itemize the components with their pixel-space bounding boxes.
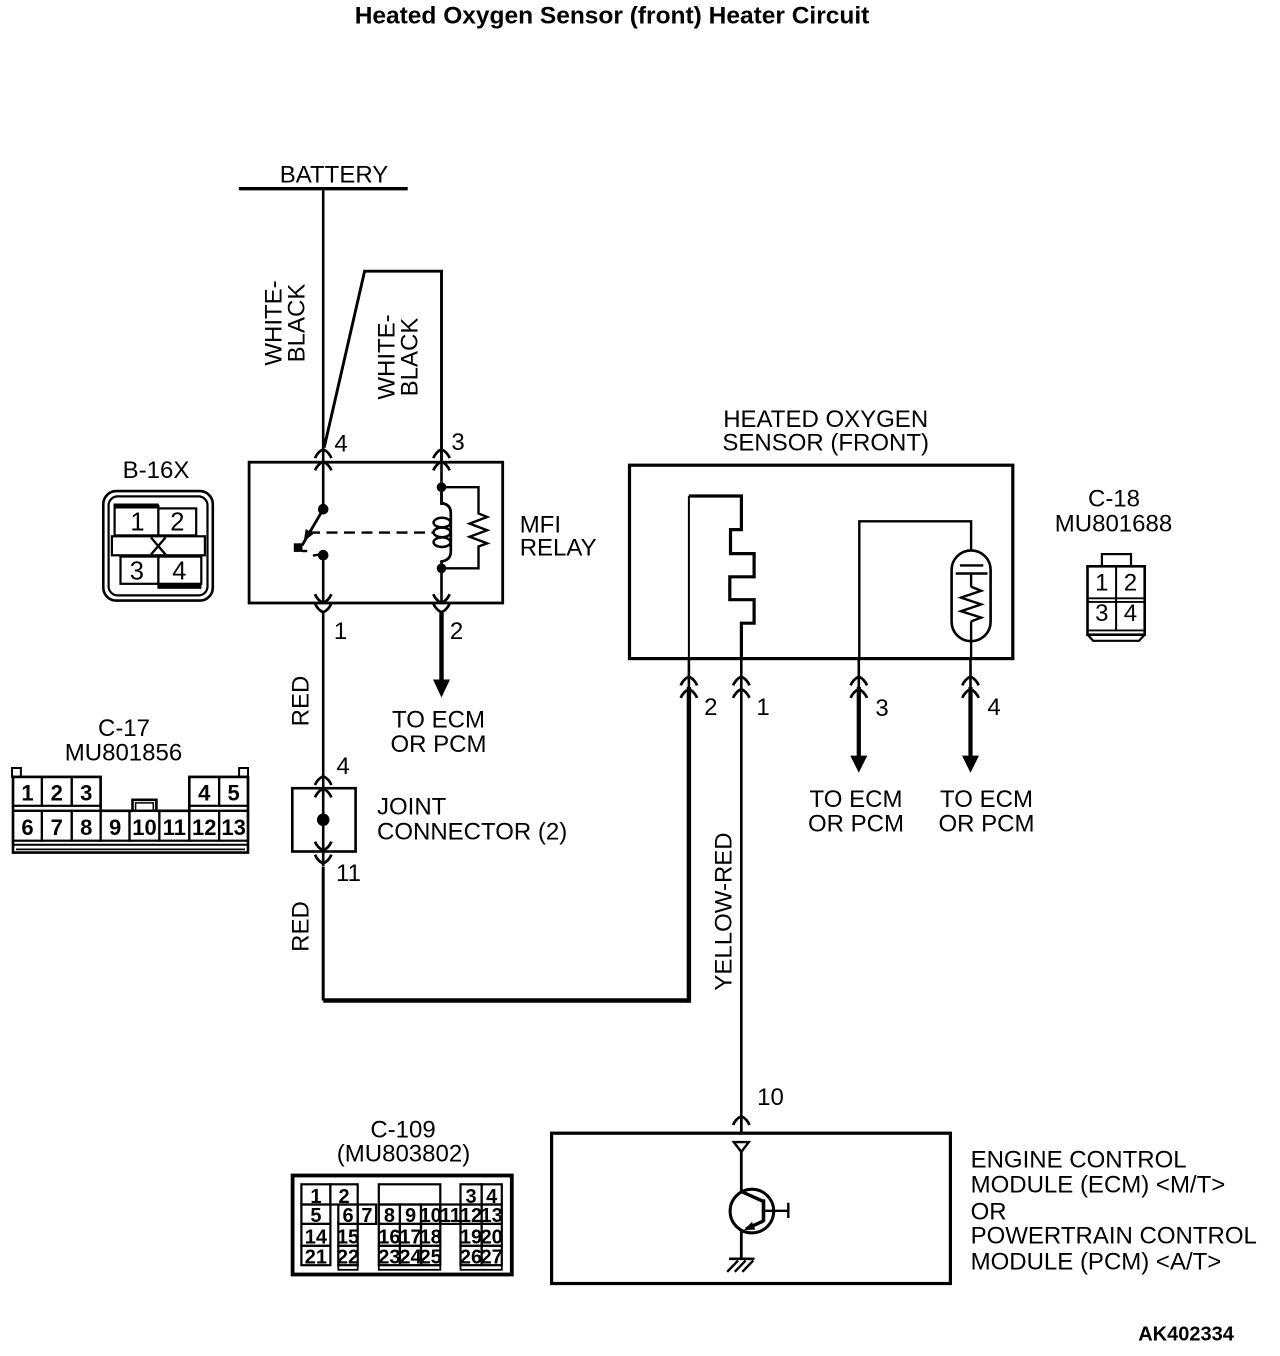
- svg-text:6: 6: [21, 815, 33, 840]
- label TO ECM OR PCM (relay pin 2): [391, 707, 487, 759]
- svg-text:B-16X: B-16X: [123, 457, 190, 484]
- sensor pin 1 label: [756, 694, 769, 721]
- svg-text:2: 2: [170, 509, 184, 537]
- relay switch upper contact: [318, 504, 329, 515]
- label WHITE-BLACK left: [261, 280, 311, 365]
- pin 4 connector chevrons: [315, 449, 331, 470]
- svg-text:11: 11: [163, 815, 186, 840]
- ECM box: [552, 1133, 951, 1283]
- svg-text:3: 3: [451, 429, 464, 456]
- relay wire coil to pin 2: [440, 568, 443, 602]
- wire into ECM: [740, 1119, 743, 1133]
- svg-text:1: 1: [334, 618, 347, 645]
- svg-text:12: 12: [460, 1205, 482, 1227]
- pin 3 label: [451, 429, 464, 456]
- joint connector box: [292, 788, 355, 851]
- svg-text:BLACK: BLACK: [397, 318, 424, 397]
- svg-text:1: 1: [21, 781, 33, 806]
- wire RED joint connector down: [322, 867, 325, 1001]
- wire RED relay pin 1 to joint connector: [322, 613, 325, 789]
- svg-text:CONNECTOR (2): CONNECTOR (2): [377, 818, 567, 845]
- svg-text:MODULE (PCM) <A/T>: MODULE (PCM) <A/T>: [971, 1248, 1222, 1275]
- svg-text:2: 2: [450, 618, 463, 645]
- svg-text:11: 11: [336, 860, 361, 887]
- connector B-16X: [103, 491, 213, 600]
- relay coil parallel resistor: [442, 487, 488, 568]
- svg-text:6: 6: [342, 1205, 353, 1227]
- svg-text:OR PCM: OR PCM: [808, 810, 904, 837]
- sensor pin 3 stub and chevrons: [851, 659, 867, 698]
- svg-text:C-17: C-17: [98, 715, 150, 742]
- svg-text:OR PCM: OR PCM: [391, 731, 487, 758]
- svg-text:1: 1: [130, 509, 144, 537]
- svg-text:10: 10: [420, 1205, 442, 1227]
- MFI relay box: [249, 462, 503, 603]
- svg-text:8: 8: [384, 1205, 395, 1227]
- connector C-18 label: [1055, 485, 1172, 537]
- relay switch lower contact: [313, 550, 329, 561]
- svg-text:4: 4: [987, 694, 1000, 721]
- svg-text:11: 11: [440, 1205, 461, 1227]
- svg-text:7: 7: [361, 1205, 372, 1227]
- svg-text:9: 9: [405, 1205, 416, 1227]
- svg-text:3: 3: [130, 558, 144, 586]
- wire battery to relay pin 4 (WHITE-BLACK): [322, 190, 325, 461]
- relay pin 2 label: [450, 618, 463, 645]
- svg-text:C-18: C-18: [1088, 485, 1140, 512]
- svg-text:OR: OR: [971, 1198, 1007, 1225]
- label JOINT CONNECTOR (2): [377, 793, 567, 845]
- title: [355, 3, 870, 30]
- svg-text:10: 10: [757, 1084, 784, 1111]
- relay switch wire from pin 4: [322, 462, 325, 509]
- sensor pin 4 stub and chevrons: [962, 659, 978, 698]
- svg-text:16: 16: [378, 1227, 400, 1249]
- label WHITE-BLACK right: [374, 314, 424, 399]
- sensor element wire: [859, 521, 971, 658]
- svg-text:ENGINE CONTROL: ENGINE CONTROL: [971, 1146, 1187, 1173]
- svg-text:8: 8: [80, 815, 92, 840]
- connector C-109 label: [337, 1116, 470, 1167]
- svg-text:C-109: C-109: [370, 1116, 435, 1143]
- label TO ECM OR PCM (sensor pin 4): [939, 786, 1035, 838]
- svg-text:OR PCM: OR PCM: [939, 810, 1035, 837]
- pin 3 connector chevrons: [433, 449, 449, 470]
- svg-text:(MU803802): (MU803802): [337, 1141, 470, 1168]
- svg-text:21: 21: [305, 1246, 327, 1268]
- sensor element capsule: [952, 550, 991, 658]
- svg-text:18: 18: [420, 1227, 442, 1249]
- joint connector bottom chevrons: [315, 842, 331, 864]
- svg-text:13: 13: [221, 815, 245, 840]
- svg-text:1: 1: [756, 694, 769, 721]
- sensor pin 1 stub and chevrons: [733, 659, 749, 698]
- pin 4 label: [334, 431, 347, 458]
- sensor pin 3 label: [875, 695, 888, 722]
- svg-text:4: 4: [172, 558, 186, 586]
- ground: [727, 1259, 754, 1272]
- svg-text:5: 5: [227, 781, 239, 806]
- label RED lower: [288, 901, 315, 952]
- heated oxygen sensor label: [722, 406, 929, 456]
- connector C-109: [293, 1176, 512, 1275]
- svg-text:2: 2: [704, 694, 717, 721]
- relay actuation dashed link: [309, 531, 434, 533]
- svg-text:22: 22: [337, 1246, 359, 1268]
- figure code: [1138, 1324, 1235, 1346]
- battery: [239, 162, 408, 189]
- svg-text:9: 9: [109, 815, 121, 840]
- label ECM / PCM: [971, 1146, 1257, 1275]
- arrow to ECM from relay pin 2: [433, 613, 450, 698]
- svg-text:13: 13: [481, 1205, 503, 1227]
- wire thick horizontal run to sensor pin 2: [323, 998, 689, 1002]
- relay coil: [434, 487, 451, 568]
- svg-text:RED: RED: [288, 676, 315, 727]
- transistor Q1: [730, 1189, 788, 1233]
- svg-text:MODULE (ECM) <M/T>: MODULE (ECM) <M/T>: [971, 1171, 1226, 1198]
- MFI relay label: [520, 511, 597, 561]
- connector B-16X label: [123, 457, 190, 484]
- connector C-17 label: [65, 715, 182, 766]
- svg-text:3: 3: [80, 781, 92, 806]
- svg-text:RELAY: RELAY: [520, 534, 597, 561]
- heater element: [689, 496, 754, 659]
- svg-text:4: 4: [1124, 600, 1137, 627]
- svg-text:4: 4: [334, 431, 347, 458]
- sensor pin 4 label: [987, 694, 1000, 721]
- svg-text:19: 19: [460, 1227, 482, 1249]
- connector C-17: [12, 768, 248, 853]
- svg-text:MU801856: MU801856: [65, 739, 182, 766]
- svg-text:POWERTRAIN CONTROL: POWERTRAIN CONTROL: [971, 1222, 1257, 1249]
- joint connector top chevrons: [315, 776, 331, 797]
- arrow to ECM from sensor pin 4: [962, 687, 979, 773]
- svg-text:3: 3: [1095, 600, 1108, 627]
- svg-text:4: 4: [198, 781, 211, 806]
- relay wire lower contact to pin 1: [322, 555, 325, 603]
- svg-text:15: 15: [337, 1227, 359, 1249]
- ECM pin 10 chevron: [733, 1116, 749, 1125]
- svg-text:2: 2: [51, 781, 63, 806]
- svg-text:TO ECM: TO ECM: [810, 786, 903, 813]
- svg-text:17: 17: [399, 1227, 421, 1249]
- svg-text:27: 27: [481, 1246, 503, 1268]
- svg-text:7: 7: [51, 815, 63, 840]
- svg-text:TO ECM: TO ECM: [392, 707, 485, 734]
- wire transistor to ground: [740, 1230, 743, 1259]
- ECM pin 10 label: [757, 1084, 784, 1111]
- connector C-18: [1088, 554, 1145, 641]
- heater element wire pin 2: [688, 496, 690, 659]
- svg-text:AK402334: AK402334: [1138, 1324, 1235, 1346]
- svg-text:YELLOW-RED: YELLOW-RED: [711, 832, 738, 990]
- relay coil wire from pin 3: [440, 462, 443, 505]
- joint connector node: [317, 814, 330, 827]
- relay switch pivot square: [294, 543, 307, 552]
- svg-text:25: 25: [420, 1246, 442, 1268]
- label RED upper: [288, 676, 315, 727]
- arrow to ECM from sensor pin 3: [850, 687, 867, 773]
- relay coil top node: [437, 482, 447, 492]
- label YELLOW-RED: [711, 832, 738, 990]
- svg-text:BLACK: BLACK: [284, 284, 311, 363]
- svg-text:TO ECM: TO ECM: [940, 786, 1033, 813]
- svg-text:SENSOR (FRONT): SENSOR (FRONT): [722, 429, 929, 456]
- svg-text:JOINT: JOINT: [377, 793, 447, 820]
- wire branch to relay pin 3 (WHITE-BLACK): [324, 271, 441, 461]
- svg-text:2: 2: [1124, 569, 1137, 596]
- joint connector internal wire: [322, 788, 325, 866]
- svg-text:MU801688: MU801688: [1055, 510, 1172, 537]
- joint connector pin 11 label: [336, 860, 361, 887]
- label TO ECM OR PCM (sensor pin 3): [808, 786, 904, 838]
- relay pin 1 label: [334, 618, 347, 645]
- ECM input triangle: [734, 1142, 749, 1152]
- svg-text:3: 3: [875, 695, 888, 722]
- svg-text:12: 12: [192, 815, 216, 840]
- svg-text:BATTERY: BATTERY: [280, 162, 388, 189]
- svg-text:20: 20: [481, 1227, 503, 1249]
- wire triangle to transistor: [740, 1152, 743, 1192]
- sensor pin 2 stub and chevrons: [681, 659, 697, 698]
- svg-text:5: 5: [310, 1205, 321, 1227]
- svg-text:26: 26: [460, 1246, 482, 1268]
- relay coil bottom node: [437, 564, 447, 574]
- wire YELLOW-RED sensor pin 1 to ECM: [740, 687, 743, 1133]
- svg-text:Heated Oxygen Sensor (front) H: Heated Oxygen Sensor (front) Heater Circ…: [355, 3, 870, 30]
- relay pin 1 chevrons: [315, 594, 331, 612]
- relay switch arm: [302, 509, 323, 545]
- svg-text:14: 14: [305, 1227, 328, 1249]
- svg-text:10: 10: [132, 815, 156, 840]
- relay pin 2 chevrons: [433, 594, 449, 612]
- svg-text:RED: RED: [288, 901, 315, 952]
- svg-text:23: 23: [378, 1246, 400, 1268]
- wire thick vertical up to sensor pin 2: [687, 687, 691, 1003]
- joint connector pin 4 label: [336, 753, 349, 780]
- sensor pin 2 label: [704, 694, 717, 721]
- heated oxygen sensor box: [630, 465, 1013, 658]
- svg-text:1: 1: [1095, 569, 1108, 596]
- svg-text:4: 4: [336, 753, 349, 780]
